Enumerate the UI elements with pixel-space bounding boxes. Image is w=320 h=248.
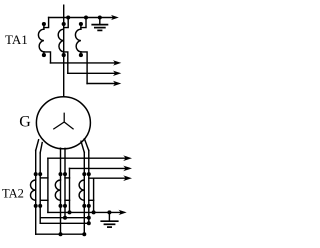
svg-text:G: G (19, 113, 31, 130)
svg-text:TA2: TA2 (2, 187, 24, 201)
svg-text:TA1: TA1 (5, 32, 28, 47)
